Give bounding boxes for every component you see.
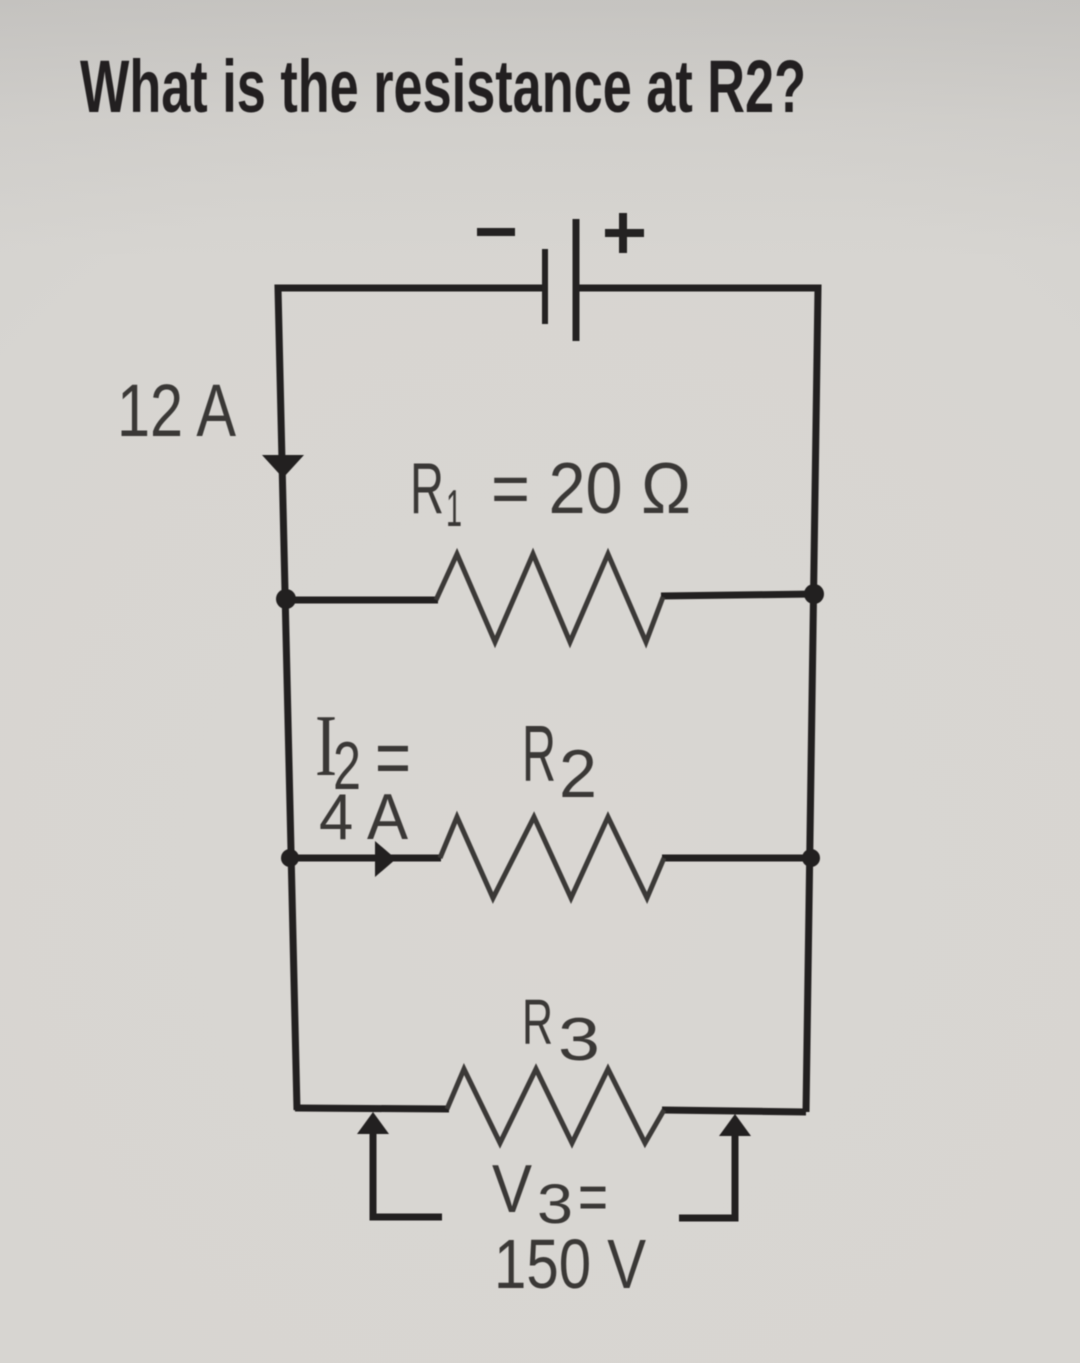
wire: R1 row left lead from left bus to resistor	[284, 597, 438, 604]
svg-text:2: 2	[559, 736, 597, 812]
wire: V3 right bracket stem and foot	[679, 1132, 735, 1218]
node junction dot left R1	[276, 589, 296, 609]
svg-text:1: 1	[446, 480, 462, 538]
svg-text:R: R	[410, 449, 444, 529]
svg-text:What is the resistance at R2?: What is the resistance at R2?	[80, 45, 806, 128]
wire: R2 row right lead from resistor to right bus	[662, 855, 811, 862]
svg-text:R: R	[522, 709, 556, 798]
wire: R2 row left lead from left bus to resistor	[288, 855, 441, 862]
wire: bottom right lead from R3 to bottom-right corner	[662, 1110, 806, 1112]
wire: V3 left bracket stem and foot	[373, 1130, 442, 1217]
battery plus sign label	[605, 213, 644, 253]
node junction dot right R1	[804, 584, 824, 604]
arrow: V3 left measurement arrow (up)	[357, 1112, 389, 1134]
node junction dot right R2	[802, 849, 820, 867]
node junction dot left R2	[281, 849, 299, 867]
resistor R3 zigzag	[447, 1069, 664, 1143]
resistor R2 zigzag	[440, 817, 664, 898]
svg-text:R: R	[522, 986, 553, 1058]
battery B1 negative plate (short)	[542, 249, 548, 324]
arrow: V3 right measurement arrow (up)	[719, 1114, 751, 1136]
svg-text:12 A: 12 A	[117, 369, 237, 452]
battery minus sign label	[477, 228, 515, 236]
svg-text:= 20 Ω: = 20 Ω	[491, 449, 691, 529]
arrow: 12 A current direction (down) on left bus	[262, 455, 304, 478]
arrow: I2 current direction (right) on R2 lead	[375, 841, 396, 877]
svg-text:V: V	[492, 1151, 533, 1227]
resistor R1 zigzag	[436, 554, 663, 642]
wire: R1 row right lead from resistor to right bus	[661, 594, 814, 596]
battery B1 positive plate (tall)	[573, 219, 580, 341]
wire: top-right horizontal + right vertical down to bottom-right corner	[577, 288, 818, 1112]
svg-text:150 V: 150 V	[494, 1225, 646, 1303]
wire: top-left horizontal + left vertical down to bottom-left corner	[278, 288, 545, 1110]
svg-text:4 A: 4 A	[319, 780, 409, 853]
svg-text:3: 3	[558, 1006, 600, 1073]
svg-text:=: =	[578, 1159, 608, 1235]
wire: bottom left lead from bottom-left corner to R3	[295, 1108, 449, 1109]
